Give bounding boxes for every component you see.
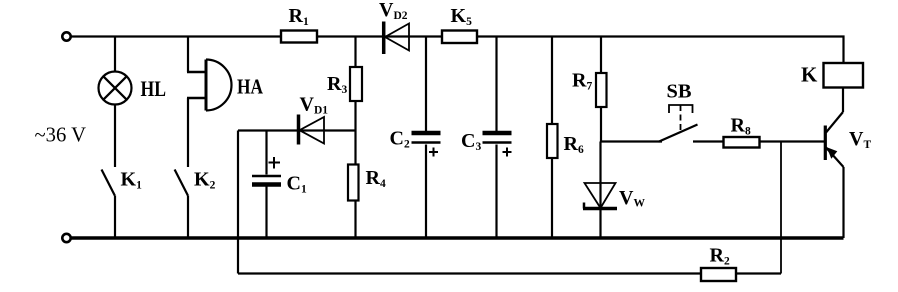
buzzer HA: [205, 60, 208, 111]
wire K1 to bottom rail: [114, 196, 116, 239]
wire emitter down: [842, 167, 844, 238]
switch K1: [102, 170, 115, 196]
diode VD1: [299, 115, 325, 145]
resistor R3: [350, 67, 362, 101]
wire C3 upper: [495, 37, 497, 132]
wire feedback drop: [780, 142, 782, 274]
svg-text:SB: SB: [667, 81, 692, 103]
wire C2 lower: [425, 145, 427, 239]
zener diode VW: [583, 183, 617, 209]
wire HA stub top: [187, 71, 207, 74]
wire lamp branch lower: [114, 105, 116, 168]
resistor R6: [547, 124, 558, 158]
relay coil K5: [442, 31, 477, 44]
node top-left terminal: [62, 32, 70, 40]
wire R7 branch: [600, 37, 602, 142]
capacitor C3: [483, 133, 512, 157]
transistor VT: [825, 112, 843, 167]
switch SB blade: [659, 125, 698, 142]
wire top rail: [71, 37, 844, 64]
capacitor C2: [412, 133, 441, 157]
wire bottom rail: [71, 236, 844, 240]
svg-text:K: K: [801, 63, 818, 87]
diode VD2: [384, 22, 409, 55]
wire HA stub bottom: [187, 97, 207, 100]
svg-text:~36 V: ~36 V: [35, 123, 87, 147]
wire HA branch upper: [187, 37, 189, 73]
wire K2 to bottom rail: [187, 196, 189, 239]
switch SB actuator: [669, 105, 693, 131]
transistor VT emitter arrow: [827, 147, 838, 159]
switch K2: [175, 170, 188, 196]
wire collector up: [842, 88, 844, 113]
wire lamp branch upper: [114, 37, 116, 72]
svg-text:HL: HL: [141, 76, 167, 101]
wire C3 lower: [495, 145, 497, 239]
wire HA branch lower: [187, 98, 189, 167]
wire base line right: [693, 140, 825, 142]
resistor R8: [724, 137, 760, 148]
wire R4 branch: [354, 131, 356, 239]
wire VD1 horizontal: [238, 129, 356, 131]
wire base line left: [601, 140, 662, 142]
lamp HL: [99, 72, 132, 105]
wire VW branch: [599, 142, 601, 239]
resistor R7: [596, 73, 607, 107]
wire lower rail: [238, 272, 781, 274]
wire R3 branch: [354, 37, 356, 131]
relay coil K: [824, 63, 864, 88]
node bottom-left terminal: [62, 234, 70, 242]
resistor R4: [348, 165, 359, 201]
wire C1 lower: [265, 187, 267, 239]
capacitor C1: [252, 157, 281, 185]
wire C1 upper: [265, 131, 267, 175]
resistor R2: [701, 268, 736, 281]
wire R6 branch: [551, 37, 553, 239]
resistor R1: [281, 31, 317, 43]
wire left drop to lower rail: [237, 131, 239, 274]
wire C2 upper: [425, 37, 427, 132]
svg-text:HA: HA: [237, 75, 264, 99]
